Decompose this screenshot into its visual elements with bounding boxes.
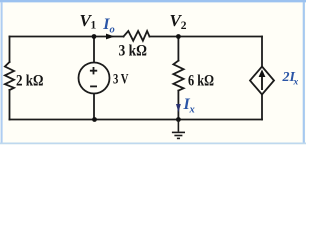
svg-text:2 kΩ: 2 kΩ <box>16 72 44 89</box>
wire top-right segment <box>150 36 263 38</box>
current arrow Io on top wire <box>106 34 115 40</box>
node V2 junction dot <box>176 34 181 39</box>
svg-text:2: 2 <box>181 20 187 32</box>
wire bottom <box>10 119 263 121</box>
node label V2 <box>170 11 187 32</box>
wire 6k branch upper <box>177 37 179 61</box>
svg-text:x: x <box>293 77 299 87</box>
ground <box>172 120 185 139</box>
wire 6k branch lower <box>177 91 179 120</box>
wire left branch lower <box>9 90 11 120</box>
svg-text:x: x <box>189 104 195 115</box>
wire voltage source branch upper <box>93 37 95 63</box>
wire top-left segment <box>10 36 124 38</box>
junction dot bottom 6k/ground <box>176 117 181 122</box>
dependent current source diamond 2Ix <box>250 67 274 95</box>
svg-text:1: 1 <box>91 20 97 32</box>
background frame <box>0 0 306 148</box>
junction dot bottom vsource <box>92 117 97 122</box>
current label Io <box>102 16 114 35</box>
svg-text:o: o <box>110 24 115 35</box>
wire right branch lower <box>261 95 263 120</box>
resistor 3 kOhm zigzag <box>124 31 150 41</box>
wire left branch upper <box>9 37 11 63</box>
svg-text:3 V: 3 V <box>113 72 129 88</box>
node V1 junction dot <box>92 34 97 39</box>
voltage source 3V circle <box>79 63 110 94</box>
resistor 6 kOhm zigzag <box>173 61 183 91</box>
svg-text:6 kΩ: 6 kΩ <box>188 72 214 89</box>
current label Ix <box>183 96 195 116</box>
svg-text:3 kΩ: 3 kΩ <box>119 42 148 59</box>
node label V1 <box>80 11 97 32</box>
current arrow Ix pointing down <box>176 104 181 112</box>
resistor 2 kOhm zigzag <box>5 62 14 90</box>
wire right branch upper <box>261 37 263 67</box>
wire voltage source branch lower <box>93 93 95 119</box>
current label 2Ix <box>282 70 299 87</box>
